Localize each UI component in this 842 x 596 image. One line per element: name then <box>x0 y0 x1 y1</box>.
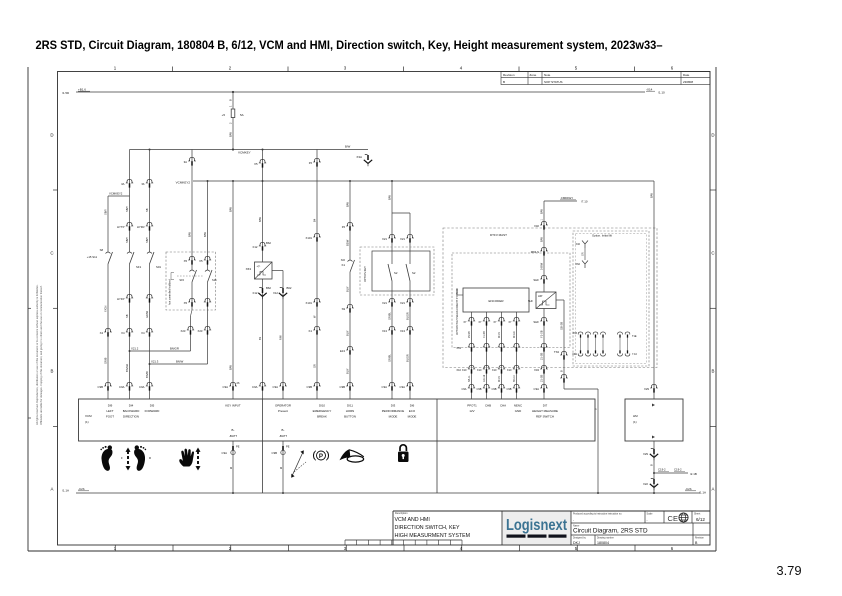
svg-text:Offenders are liable for damag: Offenders are liable for damages. Copyin… <box>39 285 43 425</box>
svg-text:SB-11: SB-11 <box>468 375 471 382</box>
svg-text:C19-2: C19-2 <box>658 468 666 472</box>
svg-text:DIRECTION: DIRECTION <box>123 414 139 418</box>
svg-text:S15: S15 <box>212 278 217 282</box>
svg-text:R: R <box>149 456 151 460</box>
dashed box: foot controlled fwd/bwd <box>166 252 216 310</box>
connector X101 pin 1 <box>313 233 320 237</box>
svg-text:HEIGHT MEASURE: HEIGHT MEASURE <box>532 409 558 413</box>
svg-text:X7: X7 <box>493 320 497 324</box>
icon left foot <box>100 445 112 470</box>
connector M63-S <box>540 247 547 251</box>
svg-text:B/W: B/W <box>203 232 207 237</box>
svg-text:M63-S: M63-S <box>531 250 539 254</box>
icon arrow up-down left <box>126 448 131 452</box>
wire encoder signal 2 <box>486 312 488 399</box>
switch S2 left <box>388 264 392 281</box>
wire down to battery bus <box>597 389 599 493</box>
icon parking brake <box>317 451 326 460</box>
drawing frame outer border <box>27 67 29 551</box>
svg-text:OPERATOR: OPERATOR <box>275 404 291 408</box>
svg-text:GND: GND <box>515 409 521 413</box>
connector X63 opt pin 6 <box>625 332 630 335</box>
svg-text:X7: X7 <box>478 320 482 324</box>
svg-text:C9A: C9A <box>119 385 125 389</box>
svg-text:X9A: X9A <box>572 353 577 356</box>
svg-text:B: B <box>712 369 715 374</box>
svg-text:DI4: DI4 <box>129 404 134 408</box>
svg-text:C9B: C9B <box>307 385 313 389</box>
svg-text:/1.5D: /1.5D <box>62 91 70 95</box>
connector X9A pin 3 <box>593 354 598 357</box>
svg-text:B/W: B/W <box>649 193 653 198</box>
wire VCMKEY2 stub to S8 <box>108 195 130 197</box>
svg-text:X63: X63 <box>456 346 461 350</box>
svg-text:B/W: B/W <box>345 202 349 207</box>
connector F12 B62 <box>259 242 266 246</box>
switch SF1 backward <box>130 252 135 264</box>
svg-text:F12: F12 <box>253 245 258 249</box>
svg-text:M: M <box>280 466 282 470</box>
connector X12 arrow <box>280 286 283 288</box>
svg-text:C9A: C9A <box>273 385 279 389</box>
box option key switch unit <box>372 251 430 291</box>
svg-text:B/W: B/W <box>228 207 232 212</box>
svg-text:DI6: DI6 <box>410 404 415 408</box>
connector X9A pin 4 <box>601 354 606 357</box>
svg-text:X21: X21 <box>400 237 405 241</box>
connector X4 pin 3A <box>126 179 133 183</box>
wire operator battery return <box>282 441 284 493</box>
svg-text:.CMDKEY: .CMDKEY <box>560 196 573 200</box>
svg-text:GR: GR <box>581 252 584 256</box>
svg-text:X21: X21 <box>400 301 405 305</box>
wire encoder supply <box>457 294 463 296</box>
svg-text:All rights reserved. Reproduct: All rights reserved. Reproduction, distr… <box>35 284 39 425</box>
svg-text:DIRECTION SWITCH, KEY: DIRECTION SWITCH, KEY <box>395 525 461 531</box>
svg-text:MODE: MODE <box>389 414 398 418</box>
svg-text:X10: X10 <box>456 368 461 372</box>
dashed box: OPTION KEY <box>360 247 434 295</box>
switch S8 <box>108 252 113 264</box>
connector X7 pin 2 <box>483 317 490 321</box>
svg-text:BL/GR: BL/GR <box>405 312 409 320</box>
connector HYFR 2 <box>146 294 153 298</box>
svg-text:21-SB: 21-SB <box>539 353 543 360</box>
svg-text:B-: B- <box>232 428 235 432</box>
connector X13 pin 1 <box>388 326 395 330</box>
svg-text:GR: GR <box>312 364 316 368</box>
icon right foot <box>134 445 146 470</box>
title block <box>393 510 710 512</box>
svg-text:B-: B- <box>282 428 285 432</box>
fold mark comb <box>345 539 462 541</box>
net +B1.6 top supply bus <box>76 91 645 93</box>
svg-text:X5: X5 <box>199 259 203 263</box>
junction top bus / fuse F5 <box>232 91 234 93</box>
svg-text:21-SB: 21-SB <box>539 375 543 382</box>
svg-text:B4: B4 <box>312 218 316 222</box>
wire option key feed <box>391 181 393 213</box>
svg-text:GR/W: GR/W <box>145 310 149 318</box>
connector X23 pin 2 <box>204 326 211 330</box>
connector X3A <box>365 153 368 155</box>
logo Logisnext <box>503 512 571 545</box>
svg-text:3b: 3b <box>141 182 145 186</box>
svg-text:BL/Y: BL/Y <box>345 286 349 292</box>
svg-text:GR-16: GR-16 <box>483 374 486 382</box>
svg-text:Note: Note <box>544 73 551 77</box>
svg-text:X23: X23 <box>198 329 203 333</box>
net VCMKEY bus <box>130 149 369 151</box>
svg-text:NENC: NENC <box>514 404 522 408</box>
svg-text:W-15: W-15 <box>498 376 501 382</box>
svg-text:C: C <box>711 251 714 256</box>
connector X5 pin 3 <box>188 298 195 302</box>
dashed box: OPTION HIGH MEASURMENT SYSTEM <box>452 253 570 348</box>
svg-text:Present: Present <box>278 409 288 413</box>
svg-text:HORN: HORN <box>346 409 355 413</box>
connector X5 pin 2 <box>204 256 211 260</box>
dashed box: Option. Initial lift (inner) <box>576 234 647 364</box>
svg-text:S2: S2 <box>394 271 398 275</box>
svg-text:Revision: Revision <box>695 538 705 540</box>
svg-text:Zone: Zone <box>530 73 537 77</box>
svg-text:C9A: C9A <box>139 385 145 389</box>
connector X13 pin 2 <box>406 326 413 330</box>
svg-text:Scale: Scale <box>647 513 654 516</box>
dashed box: Option. Initial lift (outer) <box>573 231 649 366</box>
svg-text:Y/GN: Y/GN <box>103 306 107 312</box>
svg-text:X23: X23 <box>181 329 186 333</box>
svg-text:(1): (1) <box>633 420 637 424</box>
wire emergency break chain <box>316 150 318 400</box>
svg-text:OPTION KEY: OPTION KEY <box>363 266 367 282</box>
svg-text:Description: Description <box>395 512 408 515</box>
svg-text:X29: X29 <box>643 452 648 456</box>
switch X32 initial lift <box>582 241 588 249</box>
connector C9B pin 3 <box>346 382 353 386</box>
svg-text:C9A: C9A <box>400 385 406 389</box>
svg-text:A: A <box>51 487 54 492</box>
svg-text:X3A: X3A <box>356 155 362 159</box>
svg-text:VCMKEY2: VCMKEY2 <box>109 191 123 195</box>
svg-text:BN/GR: BN/GR <box>170 346 179 350</box>
wire S8 chain <box>107 196 109 252</box>
connector C9B pin 4 <box>513 384 520 388</box>
svg-text:X21.2: X21.2 <box>131 346 139 350</box>
revision table <box>501 72 710 85</box>
connector C9B pin 2 <box>313 382 320 386</box>
svg-text:ENCODER: ENCODER <box>488 299 504 303</box>
connector X10 pin 1 <box>468 365 475 369</box>
svg-text:VCM AND HMI: VCM AND HMI <box>395 517 430 523</box>
connector C9B pin 2 <box>483 384 490 388</box>
svg-text:X13: X13 <box>400 329 405 333</box>
svg-text:S9: S9 <box>342 307 346 311</box>
wire TS3 branch <box>556 299 564 301</box>
svg-text:X21.3: X21.3 <box>151 359 159 363</box>
svg-text:-BATT: -BATT <box>229 434 237 438</box>
net -C2b battery bus <box>76 492 700 494</box>
connector E13 pin <box>346 346 353 350</box>
connector C9B pin 5 <box>104 382 111 386</box>
svg-text:SB/Y: SB/Y <box>145 237 149 243</box>
svg-text:F1-SB: F1-SB <box>483 331 486 338</box>
connector HYFR <box>146 222 153 226</box>
switch S15 right <box>208 270 213 282</box>
svg-text:+B1.6: +B1.6 <box>78 87 86 91</box>
connector X63 opt pin 1 <box>578 332 583 335</box>
svg-text:SF1: SF1 <box>136 265 142 269</box>
svg-text:BACKWARD: BACKWARD <box>123 409 140 413</box>
svg-text:DI10: DI10 <box>319 404 325 408</box>
svg-text:B1: B1 <box>258 336 262 340</box>
connector X101 pin 2 <box>313 298 320 302</box>
svg-text:BN/W: BN/W <box>176 359 184 363</box>
connector F5 pin <box>313 158 320 162</box>
svg-text:GB-SB: GB-SB <box>559 322 563 330</box>
connector X63 pin 2 <box>483 343 490 347</box>
connector X63 pin 3 <box>498 343 505 347</box>
svg-text:SB: SB <box>145 208 149 212</box>
svg-text:ECO: ECO <box>409 409 416 413</box>
svg-text:-BATT: -BATT <box>279 434 287 438</box>
svg-text:D: D <box>50 133 53 138</box>
svg-text:B: B <box>649 464 653 466</box>
svg-text:25-SB: 25-SB <box>468 331 471 338</box>
svg-text:E13: E13 <box>340 349 345 353</box>
box VCM controller <box>79 399 596 441</box>
svg-text:S01: S01 <box>156 265 161 269</box>
title block name row <box>571 534 710 536</box>
connector X10 pin 2 <box>483 365 490 369</box>
connector X22 <box>651 477 654 479</box>
svg-text:SB/Y: SB/Y <box>125 237 129 243</box>
svg-text:X32: X32 <box>534 224 539 228</box>
svg-text:B/W: B/W <box>228 132 232 137</box>
connector C9A pin 9 <box>406 382 413 386</box>
connector X9A pin 1 <box>578 354 583 357</box>
svg-text:MODE: MODE <box>408 414 417 418</box>
svg-text:BN/W: BN/W <box>145 371 149 378</box>
svg-text:230808: 230808 <box>683 80 693 84</box>
connector HYFP <box>126 294 133 298</box>
svg-text:BN/GR: BN/GR <box>125 364 129 372</box>
wire S01 chain <box>149 150 151 253</box>
svg-text:C9A: C9A <box>223 385 229 389</box>
svg-text:C9A: C9A <box>534 387 540 391</box>
svg-text:/1.1A: /1.1A <box>699 491 706 495</box>
svg-text:X10: X10 <box>477 368 482 372</box>
svg-text:REF SWITCH: REF SWITCH <box>536 414 554 418</box>
svg-text:/2.1B: /2.1B <box>690 472 697 476</box>
connector HYTP <box>126 222 133 226</box>
svg-text:VCM: VCM <box>85 414 92 418</box>
converter HIP pulse unit <box>536 292 556 309</box>
connector X5 pin 4 <box>204 298 211 302</box>
connector F5 horn <box>346 222 353 226</box>
svg-text:X10: X10 <box>492 368 497 372</box>
svg-text:PE: PE <box>236 445 240 449</box>
svg-text:Sheet: Sheet <box>694 513 701 516</box>
svg-text:X101: X101 <box>305 236 312 240</box>
connector X63 pin 4 <box>513 343 520 347</box>
svg-text:B62: B62 <box>266 241 271 245</box>
svg-text:B/W: B/W <box>345 145 351 149</box>
svg-text:C9B: C9B <box>98 385 104 389</box>
connector X4 pin 3b <box>146 179 153 183</box>
svg-text:VCMKEY2: VCMKEY2 <box>176 181 191 185</box>
connector F12 arrow <box>259 286 262 288</box>
svg-text:S15: S15 <box>179 278 184 282</box>
wire foot bwd chain <box>207 181 209 270</box>
svg-text:3A: 3A <box>121 182 125 186</box>
drawing frame inner border <box>58 72 711 546</box>
svg-text:X63: X63 <box>246 267 252 271</box>
svg-text:C: C <box>50 251 53 256</box>
svg-text:X5: X5 <box>184 301 188 305</box>
wire key input B/W <box>232 181 234 399</box>
svg-text:C9A: C9A <box>461 387 466 391</box>
svg-text:X22: X22 <box>643 482 648 486</box>
svg-text:(1): (1) <box>85 420 89 424</box>
logo globe <box>679 513 688 522</box>
connector X32 <box>540 221 547 225</box>
svg-text:B/W: B/W <box>539 209 543 214</box>
icon padlock <box>398 452 409 463</box>
svg-text:DKJ: DKJ <box>573 541 580 545</box>
connector X63 opt pin 5 <box>618 332 623 335</box>
svg-text:SB/Y: SB/Y <box>125 206 129 212</box>
net option key jog <box>392 212 410 214</box>
net VCMKEY2 bus <box>193 180 654 182</box>
connector C9A pin 6 <box>279 382 286 386</box>
wire foot fwd chain <box>191 150 193 182</box>
svg-text:T1E: T1E <box>632 335 637 338</box>
svg-text:B/W: B/W <box>228 365 232 370</box>
svg-text:DI9: DI9 <box>108 404 113 408</box>
svg-text:K1: K1 <box>309 329 313 333</box>
svg-text:/7.10: /7.10 <box>581 200 588 204</box>
svg-text:D: D <box>711 133 714 138</box>
svg-text:foot controlled fwd/bwd: foot controlled fwd/bwd <box>169 279 172 305</box>
svg-text:DTFV MAST: DTFV MAST <box>490 233 507 237</box>
svg-text:B: B <box>51 369 54 374</box>
svg-text:+5: +5 <box>222 113 226 117</box>
wire key battery return <box>232 441 234 493</box>
svg-text:B: B <box>559 370 563 372</box>
svg-text:P: P <box>319 453 323 460</box>
svg-text:X62: X62 <box>575 262 580 266</box>
dashed box: DTFV MAST <box>443 228 657 368</box>
svg-text:2RS STD, Circuit Diagram, 1808: 2RS STD, Circuit Diagram, 180804 B, 6/12… <box>36 38 663 52</box>
switch X62 initial lift <box>582 261 588 269</box>
svg-text:GR/BL: GR/BL <box>387 312 391 320</box>
junction X21.3 <box>149 363 151 365</box>
svg-text:6/12: 6/12 <box>696 517 705 522</box>
svg-text:+|>: +|> <box>257 264 261 268</box>
net CMDKEY stub <box>544 200 577 202</box>
svg-text:OPTION HIGH MEASURMENT SYST: OPTION HIGH MEASURMENT SYSTEM <box>456 289 459 335</box>
section divider lines below VCM <box>262 441 264 493</box>
svg-text:A: A <box>712 487 715 492</box>
svg-text:X21: X21 <box>382 237 387 241</box>
svg-text:C9B: C9B <box>506 387 511 391</box>
junction X21.2 <box>129 350 131 352</box>
svg-text:LEFT: LEFT <box>106 409 113 413</box>
svg-text:X32: X32 <box>575 242 580 246</box>
svg-text:3A: 3A <box>184 160 188 164</box>
svg-text:BUTTON: BUTTON <box>344 414 356 418</box>
svg-text:CE: CE <box>668 514 679 523</box>
connector C9A pin 1 <box>229 382 236 386</box>
connector X63 pin 1 <box>468 343 475 347</box>
svg-text:Produced according to instruct: Produced according to instruction instru… <box>573 513 622 516</box>
svg-text:/1.1A: /1.1A <box>62 489 69 493</box>
connector X63 pin 5 <box>540 343 547 347</box>
svg-text:5A: 5A <box>240 113 244 117</box>
connector K1 pin <box>313 326 320 330</box>
svg-text:X4: X4 <box>100 331 104 335</box>
svg-text:C9B: C9B <box>272 451 278 455</box>
svg-text:Option. Initial lift: Option. Initial lift <box>592 234 612 238</box>
net X21.2 BN/GR <box>130 350 191 352</box>
svg-text:SB/Y: SB/Y <box>103 209 107 215</box>
connector X10 pin 4 <box>513 365 520 369</box>
connector X21 pin 4 <box>406 298 413 302</box>
connector X23 pin 1 <box>187 326 194 330</box>
connector C9B pin 3 <box>498 384 505 388</box>
icon hand <box>179 449 194 467</box>
box encoder B63 <box>463 288 529 312</box>
svg-text:DI3: DI3 <box>391 404 396 408</box>
svg-text:5-B/W: 5-B/W <box>539 262 543 270</box>
switch S15 left <box>192 270 197 282</box>
connector X63 opt pin 2 <box>586 332 591 335</box>
svg-text:HYFR: HYFR <box>137 225 145 229</box>
fuse F5 5A <box>232 92 234 109</box>
connector C9A pin 4 <box>259 382 266 386</box>
svg-text:DI5: DI5 <box>150 404 155 408</box>
svg-text:3.79: 3.79 <box>776 563 801 578</box>
svg-text:HIGH MEASURMENT SYSTEM: HIGH MEASURMENT SYSTEM <box>395 533 471 539</box>
svg-text:7.10: 7.10 <box>632 353 637 356</box>
svg-text:X7: X7 <box>463 320 467 324</box>
svg-text:B62: B62 <box>266 286 271 290</box>
converter X63 (DC/DC) <box>255 262 273 279</box>
svg-text:F12: F12 <box>253 291 258 295</box>
svg-text:X13: X13 <box>382 329 387 333</box>
svg-text:-: - <box>573 518 574 522</box>
wire height system feed <box>543 201 545 292</box>
svg-text:DI7: DI7 <box>543 404 548 408</box>
svg-text:C9A: C9A <box>252 385 258 389</box>
svg-text:PE: PE <box>286 445 290 449</box>
junction VCMKEY / wire <box>149 149 151 151</box>
connector X5 key <box>259 159 266 163</box>
svg-text:-X14: -X14 <box>646 87 653 91</box>
svg-text:180804: 180804 <box>597 541 609 545</box>
junction VCMKEY / F5 <box>232 148 234 150</box>
svg-text:X21: X21 <box>382 301 387 305</box>
svg-text:TS3: TS3 <box>554 350 560 354</box>
title block designer row <box>594 535 596 545</box>
svg-text:SB: SB <box>125 314 129 318</box>
svg-text:FOOT: FOOT <box>106 414 114 418</box>
svg-text:-: - <box>647 518 648 522</box>
connector X4 pin 2 <box>126 328 133 332</box>
connector X7 pin 1 <box>468 317 475 321</box>
